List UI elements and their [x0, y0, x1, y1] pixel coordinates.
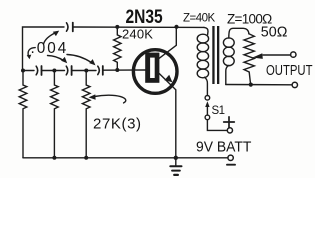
node rail emitter — [174, 156, 178, 160]
wire caps line seg1 — [23, 70, 34, 72]
wire caps line seg3 — [72, 70, 96, 72]
transformer T1 primary lead top — [204, 27, 208, 34]
node J3 — [84, 69, 88, 73]
transistor Q1 base bar — [145, 53, 159, 83]
transformer T1 primary winding — [197, 34, 208, 43]
resistor R5 50ohm — [244, 34, 254, 85]
wire battery plus — [207, 120, 227, 131]
wire caps line seg2 — [42, 70, 65, 72]
battery minus sign — [227, 164, 235, 166]
svg-text:50Ω: 50Ω — [261, 25, 288, 41]
switch S1 contact top — [205, 96, 210, 101]
transformer T1 core — [212, 26, 219, 84]
arrow label .004 to C4 — [67, 55, 92, 63]
svg-text:Z=40K: Z=40K — [183, 13, 216, 25]
transformer T1 secondary lead bottom — [226, 65, 229, 84]
resistor R2 27K — [51, 71, 59, 158]
transistor Q1 circle — [133, 50, 177, 94]
arrow label .004 to C3 — [48, 56, 64, 61]
svg-text:2N35: 2N35 — [126, 6, 164, 28]
switch S1 blade arrow — [206, 104, 208, 115]
svg-text:27K(3): 27K(3) — [93, 116, 142, 133]
transformer T1 primary lead bottom — [205, 77, 208, 95]
capacitor C1 .004 (top) — [67, 23, 69, 31]
wire top feedback left segment — [23, 27, 65, 71]
svg-text:240K: 240K — [122, 27, 153, 42]
battery plus sign — [224, 117, 235, 128]
wire base segment — [103, 69, 146, 71]
resistor R3 27K — [82, 71, 90, 158]
transformer T1 secondary lead top — [229, 28, 249, 38]
arrow label .004 to C2 (curl) — [28, 48, 35, 57]
node rail R3 — [84, 156, 88, 160]
svg-text:9V BATT: 9V BATT — [196, 139, 252, 155]
node collector top — [174, 25, 178, 29]
arrow label .004 to C1 — [44, 33, 56, 44]
wire top feedback right segment — [73, 26, 204, 28]
node base bias — [115, 68, 119, 72]
switch S1 contact bottom — [205, 115, 210, 120]
resistor R4 240K — [114, 27, 121, 70]
ground — [175, 158, 177, 166]
svg-text:S1: S1 — [212, 105, 225, 117]
capacitor C3 .004 — [66, 66, 68, 75]
battery minus terminal — [228, 155, 233, 160]
transistor Q1 collector lead — [159, 27, 176, 59]
transistor Q1 emitter lead — [159, 74, 176, 158]
capacitor C2 .004 — [36, 66, 38, 75]
output terminal lower — [292, 82, 297, 87]
transformer T1 secondary winding — [223, 38, 234, 47]
capacitor C4 .004 — [98, 66, 100, 74]
output terminal upper — [291, 52, 296, 57]
resistor R1 27K — [19, 71, 27, 158]
wire output lower — [226, 84, 292, 86]
svg-text:.004: .004 — [31, 40, 69, 57]
arrow label 27K to R3 — [95, 95, 126, 103]
node J2 — [52, 69, 56, 73]
battery plus terminal — [227, 128, 232, 133]
wire bottom rail — [23, 157, 228, 159]
node rail R2 — [52, 156, 56, 160]
node J1 — [21, 69, 25, 73]
transistor Q1 emitter arrow — [164, 75, 172, 83]
output tap arrow — [263, 54, 291, 56]
svg-text:OUTPUT: OUTPUT — [266, 61, 313, 78]
node 50ohm bottom — [249, 83, 253, 87]
